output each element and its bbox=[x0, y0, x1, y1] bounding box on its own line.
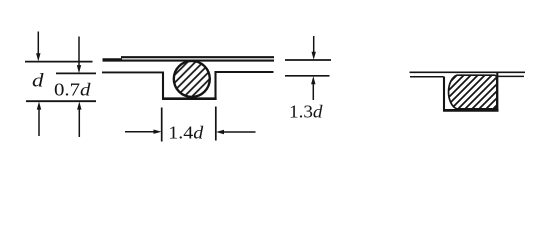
1.3d down arrow bbox=[312, 36, 316, 60]
up arrow for 0.7d bbox=[77, 102, 81, 138]
1.3d upper extension line bbox=[285, 59, 331, 61]
groove left wall (right figure) bbox=[443, 77, 445, 112]
groove bottom (right figure) bbox=[443, 109, 499, 112]
groove left wall bbox=[162, 72, 164, 101]
down arrow for 0.7d bbox=[77, 37, 81, 74]
svg-text:0.7d: 0.7d bbox=[54, 80, 92, 100]
plate right bottom line bbox=[497, 75, 524, 77]
plate left bottom line bbox=[410, 76, 444, 78]
up arrow for d bbox=[37, 102, 41, 137]
groove bottom bbox=[162, 97, 217, 100]
plate top line bbox=[121, 56, 274, 58]
1.4d left extension line bbox=[161, 108, 163, 142]
groove bottom extension line bbox=[26, 100, 96, 102]
groove right wall (right figure) bbox=[496, 73, 498, 111]
1.3d lower extension line bbox=[285, 75, 330, 77]
1.4d right extension line bbox=[215, 107, 217, 141]
O-ring cross-section circle bbox=[174, 61, 210, 97]
1.4d right arrow bbox=[216, 130, 256, 134]
0.7d extension line bbox=[56, 72, 96, 74]
1.3d up arrow bbox=[311, 76, 315, 100]
block surface right segment bbox=[215, 71, 274, 73]
groove right wall bbox=[214, 71, 216, 100]
block surface left segment bbox=[102, 71, 164, 73]
plate bottom line bbox=[103, 60, 275, 62]
d extension line (top) bbox=[25, 61, 93, 63]
plate left end merged stub bbox=[103, 58, 123, 61]
1.4d left arrow bbox=[125, 130, 162, 134]
svg-text:1.4d: 1.4d bbox=[168, 123, 204, 143]
svg-text:1.3d: 1.3d bbox=[289, 102, 324, 122]
compressed O-ring blob bbox=[449, 75, 497, 109]
down arrow for d bbox=[36, 32, 40, 62]
svg-text:d: d bbox=[32, 71, 44, 92]
plate top line (continuous over groove) bbox=[410, 71, 526, 73]
